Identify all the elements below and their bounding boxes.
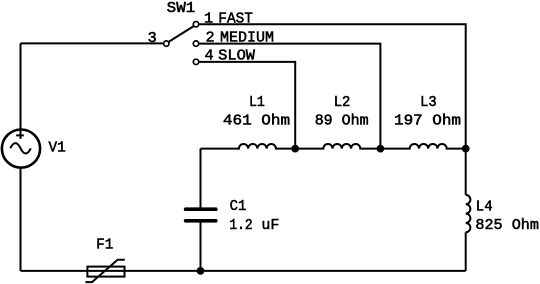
wire: left vertical from top-left corner down to V1 top: [20, 43, 22, 129]
wire: MEDIUM branch from pin 2 right then down to L2-L3 node: [200, 44, 381, 149]
svg-text:FAST: FAST: [218, 9, 253, 27]
svg-text:1: 1: [204, 9, 213, 27]
wire: SLOW branch from pin 4 right then down to L1-L2 node: [200, 62, 296, 149]
svg-text:4: 4: [205, 46, 214, 64]
svg-text:V1: V1: [49, 138, 66, 156]
svg-text:MEDIUM: MEDIUM: [220, 29, 274, 47]
svg-text:L4: L4: [476, 197, 493, 215]
wire: left vertical from V1 bottom to bottom-left corner: [20, 168, 22, 271]
wire: bottom horizontal from bottom-left to bottom-right corner: [21, 270, 466, 272]
svg-text:L2: L2: [334, 93, 351, 111]
SW1 pin 3 contact: [164, 41, 169, 46]
wire: FAST branch from pin 1 right then down to right rail: [200, 24, 466, 148]
voltage source V1: [2, 130, 40, 168]
capacitor C1: [186, 209, 216, 221]
SW1 blade: [169, 26, 194, 42]
wire: C1 branch upper from mid-wire corner down to top plate: [200, 149, 202, 208]
SW1 pin 2 contact: [193, 41, 198, 46]
node D: junction C1-bottom wire: [197, 267, 205, 275]
wire: top horizontal from top-left corner to SW1 pin 3: [21, 42, 163, 44]
wire: C1 branch lower from bottom plate to bottom wire: [200, 223, 202, 271]
node B: junction L2-L3 (MEDIUM tap): [377, 145, 385, 153]
svg-text:197 Ohm: 197 Ohm: [394, 111, 461, 129]
svg-text:461 Ohm: 461 Ohm: [223, 111, 290, 129]
svg-text:SLOW: SLOW: [218, 46, 256, 64]
inductor L3: [380, 144, 465, 149]
V1 plus sign: [16, 130, 24, 139]
SW1 pin 4 contact: [193, 59, 198, 64]
inductor L1: [201, 144, 296, 149]
V1 sine wave: [10, 143, 31, 153]
node A: junction L1-L2 (SLOW tap): [291, 145, 299, 153]
fuse F1 body: [87, 267, 124, 277]
svg-text:SW1: SW1: [167, 0, 196, 17]
svg-text:1.2: 1.2: [229, 216, 252, 234]
svg-text:89 Ohm: 89 Ohm: [315, 111, 369, 129]
svg-text:C1: C1: [230, 197, 247, 215]
svg-text:2: 2: [206, 29, 215, 47]
node C: junction L3-right rail (FAST tap): [462, 145, 470, 153]
svg-text:F1: F1: [96, 235, 113, 253]
fuse F1 slash: [85, 260, 124, 282]
inductor L2: [295, 144, 380, 149]
svg-text:L1: L1: [249, 93, 265, 111]
svg-text:825 Ohm: 825 Ohm: [475, 216, 539, 234]
svg-text:uF: uF: [261, 216, 279, 234]
svg-text:3: 3: [148, 29, 157, 47]
wire: right rail lower segment from L4 to bottom-right corner: [465, 232, 467, 271]
svg-text:L3: L3: [420, 93, 437, 111]
inductor L4: [466, 195, 471, 232]
wire: right rail upper segment to L4: [465, 149, 467, 195]
SW1 pin 1 contact: [193, 22, 198, 27]
